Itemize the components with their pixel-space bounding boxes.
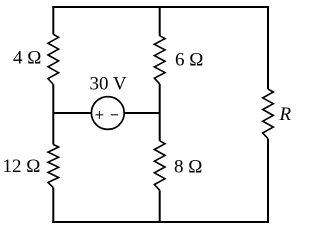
wire right branch lower segment [267,139,269,223]
svg-text:8 Ω: 8 Ω [174,157,202,178]
svg-text:12 Ω: 12 Ω [3,156,41,177]
wire right branch upper segment [267,6,269,89]
wire left branch middle segment [52,85,54,145]
wire middle horizontal left of source [53,112,91,114]
svg-text:R: R [279,104,292,125]
resistor 12 ohm [48,145,59,188]
wire middle branch middle segment [159,84,161,141]
wire middle branch lower segment [159,190,161,223]
wire bottom horizontal [52,221,269,223]
wire left branch lower segment [52,188,54,223]
svg-text:6 Ω: 6 Ω [175,49,203,70]
resistor R [263,89,274,139]
wire top horizontal [52,6,269,8]
wire middle branch upper segment [159,6,161,36]
resistor 8 ohm [154,141,165,191]
resistor 4 ohm [48,34,59,84]
resistor 6 ohm [154,36,165,84]
voltage source 30 V circle [91,97,124,130]
svg-text:4 Ω: 4 Ω [13,48,41,69]
plus terminal horizontal stroke [96,114,104,116]
wire left branch upper segment [52,6,54,34]
plus terminal vertical stroke [98,111,100,119]
wire middle horizontal right of source [124,112,160,114]
minus terminal [111,114,118,116]
svg-text:30 V: 30 V [90,74,127,95]
